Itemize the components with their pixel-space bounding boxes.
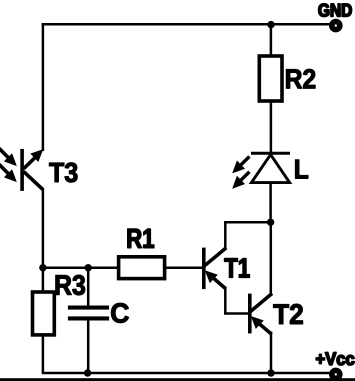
wire T2 emitter down to bottom rail [270, 332, 273, 374]
transistor T2 [248, 293, 303, 334]
wire R1 to T1 base [165, 266, 203, 269]
wire down to T1 collector [224, 221, 227, 249]
wire GND node down to R2 [270, 24, 273, 57]
node B junction dot [85, 264, 92, 271]
junction dot T2 emitter at bottom rail [267, 369, 274, 376]
bottom edge wire [0, 378, 355, 381]
wire R3 to bottom rail [42, 335, 45, 373]
resistor R1 [119, 229, 165, 279]
junction dot capacitor at bottom rail [84, 369, 91, 376]
wire into T2 base [224, 312, 249, 315]
wire top rail GND [42, 23, 331, 26]
capacitor C [68, 303, 129, 323]
wire node A down to R3 [42, 268, 45, 292]
node C junction dot below LED [267, 219, 274, 226]
wire LED L anode down to node C [269, 183, 272, 223]
wire bottom rail +Vcc [42, 372, 331, 375]
wire capacitor C to bottom rail [87, 320, 90, 374]
LED L [232, 153, 308, 189]
wire left vertical from top rail to T3 emitter [42, 23, 45, 151]
wire node B down to capacitor C [87, 268, 90, 307]
+Vcc terminal [316, 353, 354, 379]
wire node C left toward T1 collector [225, 221, 270, 224]
wire T1 emitter down to T2 base [224, 287, 227, 314]
transistor T1 [202, 248, 250, 290]
wire R2 to LED L [270, 101, 273, 153]
wire node A to R1 [43, 266, 119, 269]
ground terminal GND [319, 4, 352, 30]
junction dot on top rail [267, 21, 275, 29]
phototransistor T3 [0, 145, 77, 191]
resistor R3 [33, 275, 85, 335]
wire node C down to T2 collector [270, 222, 273, 293]
node A junction dot [39, 264, 46, 271]
wire T3 collector down to node A [42, 188, 45, 268]
resistor R2 [259, 56, 315, 101]
